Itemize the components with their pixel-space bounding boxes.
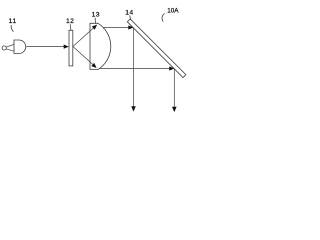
lens 13	[90, 23, 111, 69]
emitter circle of laser diode 11	[2, 46, 6, 50]
divergence cone upper line	[6, 45, 13, 48]
reflected beam down (right)	[173, 69, 175, 108]
leader line for 10A	[162, 14, 165, 22]
diverging ray from 12 to lens 13 (upper)	[73, 28, 94, 47]
diverging ray from 12 to lens 13 (lower)	[73, 47, 93, 65]
svg-text:14: 14	[125, 9, 133, 16]
mirror 14 (tilted plate)	[127, 19, 186, 78]
svg-text:13: 13	[92, 11, 100, 18]
collimator lens (D shape) of source 11	[14, 40, 26, 54]
reflected beam down (left)	[133, 28, 135, 108]
divergence cone lower line	[6, 49, 13, 51]
collimated ray from lens 13 to mirror (upper)	[103, 27, 129, 29]
leader line for 14	[130, 15, 131, 19]
leader line for 12	[69, 24, 72, 30]
collimated ray from lens 13 to mirror (lower)	[100, 68, 171, 70]
leader line for 11	[11, 25, 13, 32]
beam arrow from source to plate 12	[26, 46, 64, 48]
svg-text:11: 11	[9, 18, 17, 25]
svg-text:12: 12	[66, 18, 74, 25]
leader line for 13	[94, 18, 97, 23]
plate 12	[69, 30, 73, 66]
svg-text:10A: 10A	[167, 8, 179, 15]
